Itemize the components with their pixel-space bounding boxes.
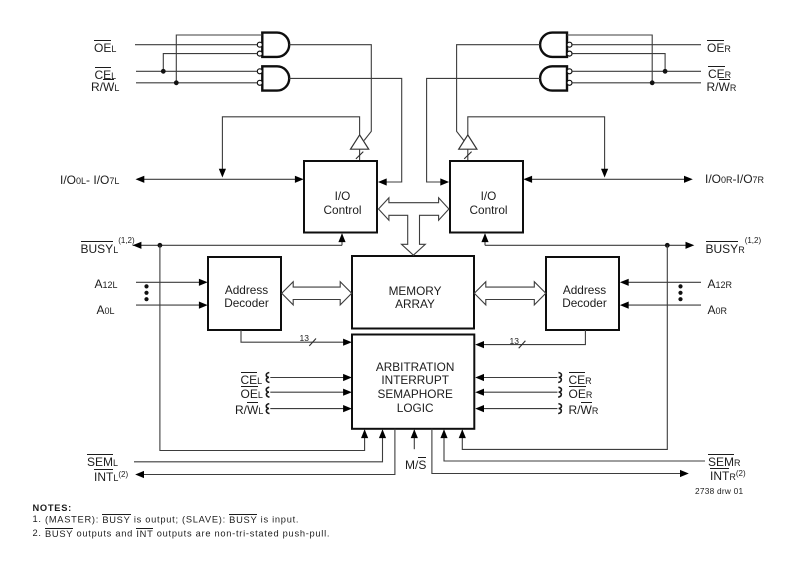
wire BUSY_L up into left I/O Control — [341, 234, 343, 245]
tri-state buffer right (U2) — [459, 135, 477, 149]
block left Address Decoder — [208, 257, 281, 330]
label A0R — [708, 304, 728, 317]
label OE_L — [94, 40, 116, 55]
NAND gate G1 (left OE gate) — [262, 33, 289, 57]
arrow A12R into right Address Decoder — [620, 279, 629, 286]
break squiggle OE_L — [266, 387, 269, 397]
wire R/W_R to G4 — [572, 82, 701, 84]
arrow I/O right into box — [523, 176, 532, 183]
arrow SEM_L into arbitration bottom — [379, 429, 386, 438]
label INT_R — [710, 468, 746, 484]
arrow OE_L into arbitration left edge — [343, 389, 352, 396]
G2 input bubble CE — [257, 69, 262, 74]
label A12L — [95, 278, 118, 291]
wire BUSY_R — [485, 244, 689, 246]
hollow double arrow left Address Decoder to MEMORY ARRAY — [282, 282, 352, 305]
label R/W_L — [91, 79, 119, 94]
label A0L — [97, 304, 115, 317]
junction BUSY_R — [665, 243, 670, 248]
arrow R/W_R into arbitration right edge — [475, 405, 484, 412]
block right Address Decoder — [546, 257, 619, 330]
text block right I/O Control — [450, 189, 525, 217]
label CE_R — [708, 66, 731, 81]
label I/O0L-I/O7L — [60, 174, 119, 187]
NAND gate G3 (right OE gate) — [540, 33, 567, 57]
wire left buffer output to I/O bus — [222, 117, 359, 170]
label BUSY_L — [81, 241, 135, 257]
arrow M/S into arbitration bottom — [411, 429, 418, 438]
label R/W_L arbitration — [235, 402, 263, 417]
junction BUSY_L — [158, 243, 163, 248]
text block left Address Decoder — [208, 284, 283, 310]
wire A12L — [136, 281, 201, 283]
wire BUSY_L down to arbitration — [160, 245, 365, 450]
arrow 13-bus into arbitration right — [475, 341, 484, 348]
label OE_R arbitration — [569, 386, 593, 401]
wire CE_R branch to G3 — [572, 54, 665, 72]
wire CE_L branch to G1 — [163, 54, 257, 72]
wire OE_L into arbitration — [270, 391, 345, 393]
wire G3 output to right buffer enable — [457, 45, 540, 141]
wire BUSY_R up into right I/O Control — [484, 234, 486, 245]
label A12R — [708, 278, 733, 291]
label CE_L — [95, 67, 117, 82]
label OE_L arbitration — [241, 386, 263, 401]
notes heading — [33, 503, 72, 513]
arrow CE_L into arbitration left edge — [343, 374, 352, 381]
label INT_L — [94, 469, 128, 485]
note 2 number — [33, 528, 42, 538]
G3 input bubble OE — [567, 42, 572, 47]
break squiggle OE_R — [558, 387, 561, 397]
wire CE_L into arbitration — [270, 377, 345, 379]
wire INT_R — [432, 429, 683, 474]
arrow into right I/O Control left edge — [440, 178, 449, 185]
break squiggle CE_L — [266, 373, 269, 383]
G2 input bubble RW — [257, 80, 262, 85]
NAND gate G4 (right write gate) — [540, 66, 567, 90]
block left I/O Control — [304, 161, 377, 233]
arrow BUSY path into arbitration bottom right — [459, 429, 466, 438]
wire BUSY_R down to arbitration — [462, 245, 667, 449]
arrow OE_R into arbitration right edge — [475, 389, 484, 396]
wire G2 output to left I/O Control — [289, 78, 402, 182]
wire left buffer input from I/O Control — [359, 149, 361, 160]
wire R/W_R into arbitration — [482, 408, 558, 410]
junction CE_R — [663, 69, 668, 74]
arrow I/O left into box — [295, 176, 304, 183]
label 13 left — [300, 334, 309, 343]
bus slash right buffer — [464, 152, 471, 159]
wire BUSY_L — [133, 244, 342, 246]
arrow down onto left I/O bus — [219, 169, 226, 178]
wire OE_R to G3 — [572, 44, 701, 46]
wire I/O bus left — [141, 178, 297, 180]
arrow CE_R into arbitration right edge — [475, 374, 484, 381]
break squiggle R/W_R — [558, 404, 561, 414]
label drawing number — [695, 487, 743, 495]
bus slash left buffer — [356, 152, 363, 159]
wire OE_R into arbitration — [482, 391, 558, 393]
arrow BUSY path into arbitration bottom left — [361, 429, 368, 438]
tri-state buffer left (U1) — [351, 135, 369, 149]
bus slash 13 left — [309, 339, 316, 346]
arrow down onto right I/O bus — [601, 169, 608, 178]
note 1 number — [33, 514, 42, 524]
text block MEMORY ARRAY — [352, 285, 476, 312]
arrow SEM_R into arbitration bottom — [440, 429, 447, 438]
arrow I/O right outward — [684, 176, 693, 183]
note 1 — [45, 514, 299, 525]
label CE_R arbitration — [569, 372, 592, 387]
wire CE_R to G4 — [572, 70, 701, 72]
label R/W_R — [707, 79, 737, 94]
note 2 — [45, 528, 330, 539]
arrow A0R into right Address Decoder — [620, 302, 629, 309]
arrow INT_L to label — [135, 471, 144, 478]
label M/S — [405, 457, 426, 471]
wire SEM_L — [134, 430, 383, 462]
label 13 right — [510, 337, 519, 346]
wire right buffer input from I/O Control — [467, 149, 469, 160]
wire OE_L to G1 — [135, 44, 257, 46]
hollow T-arrow between I/O Controls and MEMORY ARRAY — [379, 198, 449, 255]
break squiggle R/W_L — [266, 404, 269, 414]
label SEM_L — [87, 454, 118, 469]
wire CE_R into arbitration — [482, 377, 558, 379]
hollow double arrow MEMORY ARRAY to right Address Decoder — [474, 282, 546, 305]
label BUSY_R — [706, 241, 762, 257]
arrow I/O left outward — [136, 176, 145, 183]
ellipsis left address — [144, 284, 148, 288]
arrow A0L into left Address Decoder — [199, 302, 208, 309]
wire A0L — [136, 304, 201, 306]
block ARBITRATION INTERRUPT SEMAPHORE LOGIC — [352, 335, 474, 429]
arrow A12L into left Address Decoder — [199, 279, 208, 286]
bus slash 13 right — [519, 341, 526, 348]
block right I/O Control — [450, 161, 523, 233]
G1 input bubble CE — [257, 51, 262, 56]
text block arbitration logic — [352, 361, 476, 415]
junction R/W_R — [650, 80, 655, 85]
wire M/S stub — [413, 430, 415, 449]
wire R/W_R branch to G3 — [567, 35, 652, 83]
block MEMORY ARRAY — [352, 256, 474, 329]
arrow BUSY_R to label — [686, 242, 695, 249]
label CE_L arbitration — [241, 372, 263, 387]
NAND gate G2 (left write gate) — [262, 66, 289, 90]
label R/W_R arbitration — [569, 402, 599, 417]
text block left I/O Control — [304, 189, 379, 217]
junction CE_L — [161, 69, 166, 74]
G4 input bubble RW — [567, 80, 572, 85]
wire CE_L to G2 — [136, 70, 257, 72]
wire R/W_L to G2 — [136, 82, 257, 84]
label I/O0R-I/O7R — [705, 173, 764, 186]
G3 input bubble CE — [567, 51, 572, 56]
wire 13-bus left — [241, 330, 346, 342]
G1 input bubble OE — [257, 42, 262, 47]
arrow BUSY_R into right I/O Control bottom — [481, 233, 488, 242]
wire R/W_L into arbitration — [270, 408, 345, 410]
wire INT_L — [141, 429, 395, 475]
arrow R/W_L into arbitration left edge — [343, 405, 352, 412]
arrow INT_R to label — [680, 470, 689, 477]
wire SEM_R — [444, 430, 705, 461]
wire G4 output to right I/O Control — [427, 78, 540, 182]
wire R/W_L branch to G1 — [176, 35, 262, 83]
wire A0R — [626, 304, 701, 306]
wire A12R — [626, 281, 701, 283]
wire 13-bus right — [482, 330, 586, 345]
label SEM_R — [708, 454, 741, 469]
wire right buffer output to I/O bus — [468, 117, 605, 170]
junction R/W_L — [174, 80, 179, 85]
break squiggle CE_R — [558, 373, 561, 383]
text block right Address Decoder — [546, 284, 621, 310]
arrow BUSY_L to label — [133, 242, 142, 249]
ellipsis right address — [678, 284, 682, 288]
wire G1 output to left buffer enable — [289, 45, 371, 141]
arrow BUSY_L into left I/O Control bottom — [338, 233, 345, 242]
arrow into left I/O Control right edge — [378, 178, 387, 185]
arrow 13-bus into arbitration left — [343, 339, 352, 346]
wire I/O bus right — [529, 178, 687, 180]
G4 input bubble CE — [567, 69, 572, 74]
label OE_R — [707, 40, 731, 55]
